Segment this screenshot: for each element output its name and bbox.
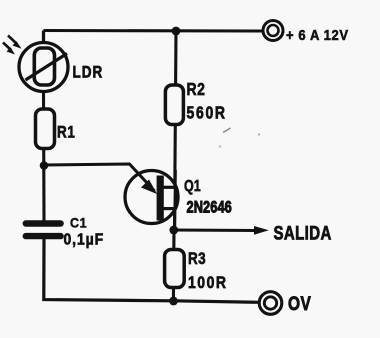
wire top-left vertical stub above LDR [42,31,45,45]
svg-text:0,1µF: 0,1µF [64,231,105,249]
LDR photoresistor circle [19,43,68,92]
terminal +V inner [268,25,279,36]
node junction bottom (R3 / 0V rail) [169,297,178,306]
svg-text:R2: R2 [187,79,206,99]
svg-text:Q1: Q1 [184,178,201,196]
scan artifact dash [223,128,231,133]
SALIDA arrowhead [254,226,269,235]
terminal +V outer [263,21,283,41]
capacitor C1 bottom plate [23,233,64,239]
resistor R3 [165,250,185,288]
wire left rail (LDR to C1) [42,90,46,221]
transistor Q1 base-1 lead [164,207,177,210]
transistor Q1 circle [125,171,178,224]
svg-text:R1: R1 [57,123,75,142]
transistor Q1 base bar [157,176,164,221]
svg-text:+ 6 A 12V: + 6 A 12V [286,27,349,43]
wire emitter from left junction [44,164,155,191]
resistor R1 [36,109,55,149]
svg-text:R3: R3 [188,250,206,269]
svg-text:C1: C1 [70,215,87,231]
wire left rail (C1 to bottom corner) [44,239,260,303]
resistor R2 [165,85,183,125]
wire top horizontal rail [44,29,264,33]
wire rail crossing transistor [173,170,177,226]
svg-text:OV: OV [288,292,311,314]
node junction top (supply / R2) [172,27,181,36]
svg-text:560R: 560R [187,104,227,123]
LDR diagonal stroke [26,54,68,81]
LDR inner resistor body [34,48,54,85]
wire middle vertical rail (junction to bottom) [172,230,176,301]
transistor Q1 emitter arrowhead [141,180,157,195]
terminal 0V inner [264,297,276,309]
wire SALIDA output [174,228,258,232]
light arrow upper [8,36,17,45]
node junction output (B1 / R3 / SALIDA) [169,226,178,235]
svg-text:100R: 100R [188,274,227,292]
capacitor C1 top plate [23,220,64,226]
transistor Q1 base-2 lead [164,186,177,189]
scan artifact smudge [219,145,222,148]
scan artifact dot [258,133,260,135]
node junction left (R1 / C1 / emitter) [40,161,49,170]
terminal 0V outer [259,292,282,315]
svg-text:2N2646: 2N2646 [187,199,232,217]
svg-text:LDR: LDR [73,63,104,82]
svg-text:SALIDA: SALIDA [274,222,332,244]
wire middle vertical rail (supply to junction) [175,31,177,230]
light arrow lower [3,43,11,51]
